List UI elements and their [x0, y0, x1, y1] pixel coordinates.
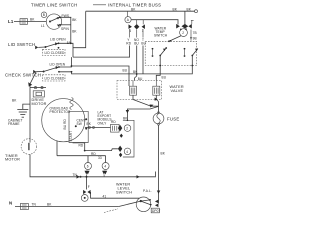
- lid switch arm: [46, 43, 59, 47]
- line cord plug box N: [20, 204, 28, 210]
- dashed box water temp switch: [145, 41, 197, 65]
- wire buss drop to lid switch: [73, 11, 86, 48]
- check switch common dot: [43, 71, 45, 73]
- label INTERNAL TIMER BUSS with leader dash: [93, 4, 106, 6]
- svg-text:N: N: [9, 200, 12, 205]
- svg-text:SPIN: SPIN: [61, 27, 69, 31]
- wire TN line: [80, 172, 156, 177]
- svg-text:33: 33: [98, 156, 102, 160]
- wire lid switch contacts to bus: [59, 43, 74, 57]
- capacitor box: [111, 124, 120, 132]
- svg-text:SW: SW: [77, 122, 82, 126]
- check switch feed arrow: [33, 70, 36, 74]
- svg-text:BU: BU: [123, 69, 128, 73]
- svg-text:F: F: [88, 185, 90, 189]
- wire N line: [15, 206, 119, 208]
- svg-text:BU: BU: [162, 76, 167, 80]
- temp switch contact b arm: [159, 55, 161, 57]
- svg-text:7B: 7B: [193, 31, 197, 35]
- timer line switch common dot: [49, 21, 51, 23]
- wire check common to motor corner: [30, 72, 36, 88]
- temp connector right stub: [191, 19, 194, 21]
- wire check switch lower out: [59, 72, 143, 74]
- wire temp out 1: [156, 56, 160, 81]
- svg-text:6: 6: [87, 165, 89, 169]
- svg-text:L1: L1: [41, 24, 45, 28]
- svg-text:BU: BU: [141, 42, 146, 46]
- line cord plug box L1: [20, 19, 27, 25]
- node A circle on buss: [127, 11, 129, 16]
- timer contact 4 diamonds: [118, 146, 122, 152]
- svg-text:BK: BK: [30, 18, 35, 22]
- svg-text:2: 2: [182, 31, 184, 35]
- temp connector arrow left: [176, 24, 180, 29]
- svg-text:BK: BK: [12, 99, 17, 103]
- timer contact 2 diamonds: [118, 125, 122, 131]
- wire into fuse: [158, 102, 160, 114]
- svg-text:MOTOR: MOTOR: [5, 158, 20, 162]
- wire valve feeds inside box: [132, 81, 134, 87]
- check switch closed contact: [58, 71, 60, 73]
- svg-text:L1: L1: [8, 19, 14, 24]
- svg-text:TN: TN: [73, 173, 78, 177]
- temp switch contact d arm: [191, 55, 193, 57]
- pressure switch pivot dot: [140, 200, 142, 202]
- lid switch feed arrow: [35, 46, 38, 50]
- wire stubs to cams 8 and 4: [87, 156, 89, 163]
- wire L1 line: [14, 21, 46, 23]
- connector pin 3 arrow: [142, 24, 145, 29]
- timer line switch circle: [46, 14, 61, 29]
- svg-text:VALVE: VALVE: [171, 89, 184, 93]
- junction TN: [77, 175, 80, 179]
- wire pin2 down to valve: [135, 46, 137, 81]
- timer line switch arm to PWS contact: [50, 17, 60, 21]
- svg-text:START: START: [69, 131, 73, 142]
- pin stubs from buss line2: [136, 20, 138, 25]
- check switch arm: [44, 67, 59, 72]
- motor lead to capacitor: [85, 126, 111, 128]
- temp switch contact c: [184, 48, 186, 50]
- wire fuse down to water level switch: [158, 125, 160, 203]
- svg-text:4: 4: [126, 150, 128, 154]
- motor bottom lead: [73, 143, 85, 151]
- label LID CLOSED dashed box (check): [43, 75, 66, 81]
- wire stubs below pins: [129, 29, 131, 38]
- svg-text:FRAME: FRAME: [8, 122, 20, 126]
- timer cam switch 8: [85, 163, 92, 170]
- svg-text:TIMER LINE SWITCH: TIMER LINE SWITCH: [31, 3, 78, 8]
- svg-text:41: 41: [103, 195, 107, 199]
- svg-text:BK: BK: [187, 8, 192, 12]
- wire selector to temp box: [170, 36, 181, 41]
- motor connector box: [33, 91, 44, 97]
- wire temp out 2: [143, 56, 192, 74]
- pressure switch circle: [136, 197, 151, 212]
- temp box top junction dot: [168, 40, 170, 42]
- timer line switch lower contact SPIN: [59, 24, 61, 26]
- node B circle: [41, 12, 47, 18]
- fuse terminal dots: [158, 112, 160, 114]
- timer motor symbol: [28, 143, 29, 150]
- label DP07 box: [151, 208, 159, 213]
- wire check switch junction: [59, 57, 72, 67]
- water temp switch feed: drop from buss line1: [184, 11, 186, 24]
- motor second bottom lead: [56, 141, 58, 156]
- wire cam2 feed from fuse line: [127, 120, 129, 122]
- timer motor dashed circle: [21, 139, 37, 155]
- svg-text:ONLY: ONLY: [98, 121, 108, 125]
- connector pin 1 arrow: [129, 24, 132, 29]
- dashed bottom of water level switch: [104, 209, 118, 213]
- cam box: [123, 120, 134, 157]
- svg-text:B: B: [43, 13, 45, 17]
- motor internal switch box: [69, 111, 88, 142]
- timer cam switch 4: [124, 148, 131, 155]
- svg-text:SWITCH: SWITCH: [116, 190, 132, 194]
- wire valve outputs converge to fuse: [133, 95, 159, 106]
- wire internal timer buss line 2: [131, 20, 178, 25]
- connector pin 2 diamond: [134, 24, 139, 29]
- fuse circle: [153, 113, 164, 124]
- wire motor feed horizontal: [30, 87, 46, 89]
- svg-text:P.A.L.: P.A.L.: [143, 189, 152, 193]
- svg-text:BU: BU: [134, 42, 139, 46]
- dashed box water valve: [117, 81, 162, 100]
- svg-text:RD: RD: [126, 42, 131, 46]
- svg-text:BK: BK: [47, 203, 52, 207]
- wire check switch out to water valve: [72, 66, 130, 86]
- svg-text:4: 4: [104, 165, 106, 169]
- wire timer motor down and right: [30, 154, 80, 177]
- svg-text:MOTOR: MOTOR: [32, 102, 47, 106]
- timer cam switch 2: [124, 125, 131, 132]
- wire lid switch out to right: [73, 46, 130, 58]
- lid switch closed contact: [58, 47, 60, 49]
- cam 4b contacts: [102, 171, 106, 175]
- svg-text:RD: RD: [79, 144, 84, 148]
- motor plug terminals: [34, 87, 36, 89]
- svg-text:BU RD: BU RD: [63, 118, 67, 129]
- wire selector right column: [190, 30, 192, 41]
- svg-text:PROTECTOR: PROTECTOR: [50, 110, 71, 114]
- lid switch open contact: [58, 42, 60, 44]
- svg-text:BK: BK: [87, 122, 92, 126]
- motor internal dots: [85, 118, 87, 120]
- overload protector squiggle: [70, 98, 73, 110]
- wire F to pressure switch: [91, 192, 140, 198]
- svg-text:BK: BK: [173, 8, 178, 12]
- wire vertical timer switch output: [70, 17, 72, 43]
- svg-text:TN: TN: [32, 203, 37, 207]
- wire from PWS contact to right bus: [60, 16, 71, 19]
- wire timer motor up: [29, 139, 31, 143]
- wire pin3 down to valve junction: [142, 46, 144, 75]
- F cam contacts: [83, 190, 86, 194]
- wire ground branch: [23, 104, 30, 109]
- wire motor to cam 4: [85, 149, 118, 151]
- svg-text:LID CLOSED: LID CLOSED: [45, 76, 66, 80]
- wire motor return line: [57, 155, 106, 157]
- temp switch contact a: [152, 48, 154, 50]
- pressure switch fixed contacts: [155, 200, 159, 204]
- fuse line arrow into switch: [157, 191, 161, 194]
- ground cabinet frame symbol: [17, 108, 28, 110]
- svg-text:RD: RD: [91, 152, 96, 156]
- svg-text:SWITCH: SWITCH: [154, 34, 168, 38]
- svg-text:BK: BK: [161, 152, 166, 156]
- wire junction down to F terminal: [86, 177, 88, 190]
- svg-text:9B: 9B: [193, 36, 197, 40]
- terminal F circle: [81, 195, 88, 202]
- lid switch common dot: [45, 46, 47, 48]
- svg-text:LID CLOSED: LID CLOSED: [45, 51, 66, 55]
- check switch open contact: [58, 66, 60, 68]
- wire from SPIN contact to right bus: [60, 24, 71, 26]
- connector pair on motor lead: [89, 126, 91, 128]
- pressure switch arm from N line: [119, 201, 141, 206]
- pressure switch arms: [141, 200, 150, 201]
- svg-text:BK: BK: [72, 30, 77, 34]
- svg-text:FUSE: FUSE: [167, 117, 179, 122]
- svg-text:LID OPEN: LID OPEN: [50, 37, 66, 41]
- buss end terminal circle: [195, 10, 198, 13]
- cam 8 contacts: [85, 171, 89, 175]
- wire down left of motor: [29, 88, 31, 139]
- valve solenoid 1: [130, 86, 137, 95]
- svg-text:BK: BK: [131, 7, 136, 11]
- temp connector diamond: [182, 24, 189, 29]
- svg-text:LID OPEN: LID OPEN: [50, 63, 66, 67]
- temp connector arrow right: [188, 24, 191, 29]
- svg-text:BK: BK: [72, 18, 77, 22]
- label LID CLOSED dashed box: [43, 49, 66, 55]
- svg-text:2: 2: [126, 127, 128, 131]
- svg-text:RD: RD: [111, 120, 116, 124]
- wire internal timer buss line 1: [86, 10, 195, 12]
- drive motor circle: [42, 99, 85, 142]
- valve solenoid 2: [153, 86, 160, 95]
- svg-text:DP07: DP07: [152, 209, 161, 213]
- svg-text:LID SWITCH: LID SWITCH: [8, 42, 35, 47]
- timer cam switch 4b: [102, 163, 109, 170]
- svg-text:BK: BK: [133, 70, 138, 74]
- temp selector cam circle 2: [180, 29, 188, 37]
